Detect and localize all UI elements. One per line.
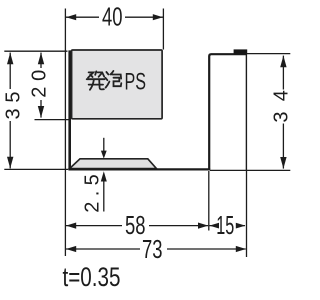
profile right rim: outer down edge bbox=[245, 54, 247, 171]
top-left extension line (y=51.6) bbox=[4, 50, 67, 52]
dimension 58 left arrow bbox=[66, 223, 76, 229]
svg-text:40: 40 bbox=[102, 1, 123, 31]
dimension 34 bottom arrow bbox=[280, 157, 286, 169]
dimension 20 bottom arrow bbox=[38, 106, 44, 118]
profile right rim: left upturn + top fold bbox=[209, 54, 247, 169]
svg-text:73: 73 bbox=[142, 234, 163, 264]
dimension 40 line bbox=[66, 16, 163, 18]
extension line 34 top (y=54.6) bbox=[247, 53, 290, 55]
extension line 34 bottom (y=170.4) bbox=[210, 169, 290, 171]
extension line of box bottom to left (y=119.6) bbox=[35, 119, 71, 121]
dimension 20 line bbox=[40, 53, 42, 118]
dimension 15 text bbox=[216, 210, 237, 240]
dimension 2.5 upper arrow (pointing down) bbox=[103, 138, 105, 153]
dimension 58 line bbox=[66, 225, 208, 227]
dimension 35 text (rotated) bbox=[1, 89, 24, 121]
profile left wall (thick) bbox=[68, 50, 71, 169]
dimension 58 text bbox=[122, 210, 149, 240]
dimension 2.5 lower arrow (pointing up) bbox=[103, 178, 105, 212]
extension line mid bottom (x=208.8) bbox=[208, 171, 210, 231]
embossed rib trapezoid bbox=[70, 159, 157, 169]
dimension 58 right arrow bbox=[198, 223, 208, 229]
extension line right of 40 (x=163.4) bbox=[162, 9, 164, 50]
dimension 73 text bbox=[140, 234, 167, 264]
extension line left long (x=65.4) bbox=[64, 9, 66, 257]
dimension 40 text bbox=[99, 1, 125, 31]
extension line bottom-left (y=169.4 thin part) bbox=[4, 168, 68, 170]
dimension 34 text (rotated) bbox=[271, 90, 293, 124]
dimension 35 bottom arrow bbox=[7, 157, 13, 169]
svg-text:PS: PS bbox=[124, 68, 146, 95]
dimension 73 line bbox=[66, 248, 246, 250]
label 発泡PS : kanji 発 (hand-drawn strokes) bbox=[87, 71, 105, 89]
dimension 34 line bbox=[282, 56, 284, 169]
extension line right bottom (x=246.2) bbox=[246, 171, 248, 258]
dimension 15 line bbox=[209, 225, 245, 227]
dimension 73 right arrow bbox=[236, 246, 246, 252]
profile bottom sheet (thick) bbox=[68, 168, 210, 170]
dimension 15 left arrow bbox=[209, 223, 219, 229]
dimension 34 top arrow bbox=[280, 56, 286, 68]
dimension 40 right arrow bbox=[153, 14, 163, 20]
label 発泡PS : kanji 泡 (hand-drawn strokes) bbox=[105, 71, 121, 88]
svg-text:t=0.35: t=0.35 bbox=[63, 262, 121, 292]
dimension 20 top arrow bbox=[38, 53, 44, 65]
dimension 73 left arrow bbox=[66, 246, 76, 252]
seal bar (thick black) bbox=[234, 49, 248, 54]
dimension 40 left arrow bbox=[66, 14, 76, 20]
dimension 15 right arrow bbox=[236, 223, 246, 229]
dimension 35 line bbox=[9, 53, 11, 169]
svg-text:2.5: 2.5 bbox=[82, 174, 104, 213]
dimension 20 text (rotated) bbox=[28, 68, 51, 100]
foam block 発泡PS bbox=[72, 50, 163, 119]
dimension 35 top arrow bbox=[7, 53, 13, 65]
